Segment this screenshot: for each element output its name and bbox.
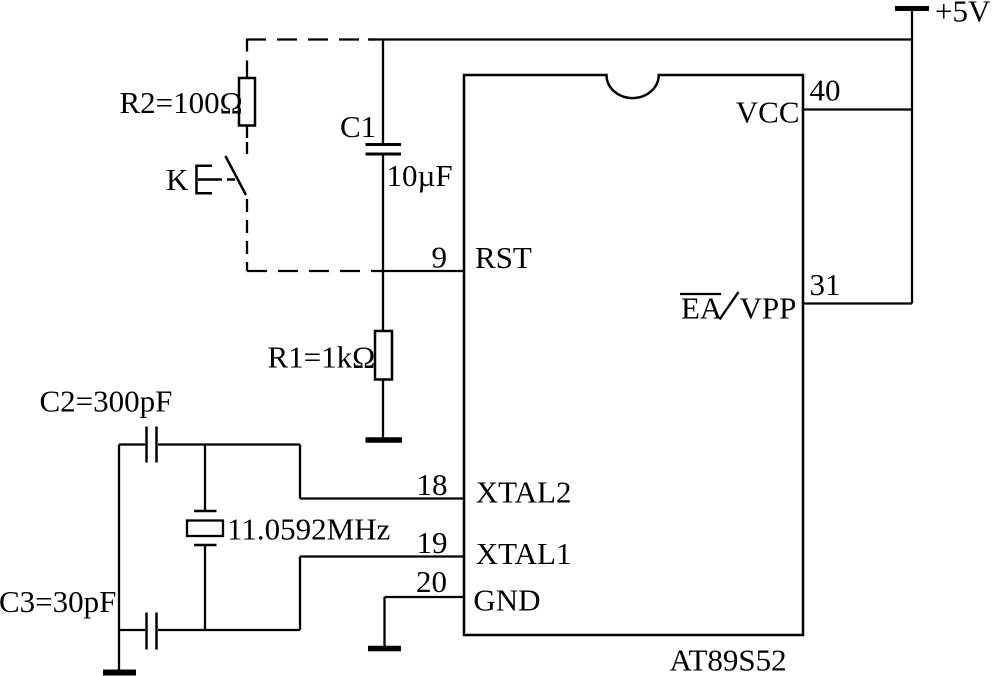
switch K actuator bracket <box>197 166 213 194</box>
capacitor C2 left plate <box>145 427 148 463</box>
svg-text:GND: GND <box>473 583 540 618</box>
wire R1 to ground <box>382 380 384 439</box>
wire RST node to R1 <box>382 271 384 331</box>
svg-text:R1=1kΩ: R1=1kΩ <box>268 340 376 375</box>
wire top horizontal <box>368 38 912 40</box>
wire dashed box left upper <box>246 40 248 72</box>
wire crystal top <box>204 445 206 512</box>
svg-text:C1: C1 <box>340 109 376 144</box>
svg-text:VPP: VPP <box>740 291 797 326</box>
svg-text:11.0592MHz: 11.0592MHz <box>227 512 390 547</box>
svg-text:RST: RST <box>475 240 532 275</box>
resistor R2 stub top <box>246 71 248 78</box>
svg-text:EA: EA <box>681 291 723 326</box>
resistor R2 stub bottom <box>246 126 248 139</box>
wire XTAL1 corner down <box>299 557 301 631</box>
capacitor C3 right plate <box>155 613 158 650</box>
svg-text:K: K <box>166 162 189 197</box>
wire left vertical C2 to ground <box>118 445 120 671</box>
svg-text:XTAL2: XTAL2 <box>476 475 572 510</box>
svg-text:31: 31 <box>810 267 841 302</box>
svg-text:+5V: +5V <box>935 0 991 29</box>
EA/VPP slash <box>720 292 739 320</box>
ground GND pin <box>368 646 401 652</box>
ground R1 <box>366 437 403 443</box>
wire C2 right to corner <box>158 443 300 445</box>
svg-text:C3=30pF: C3=30pF <box>0 584 116 619</box>
wire crystal bottom <box>204 546 206 630</box>
wire C3 left <box>119 629 145 631</box>
capacitor C2 right plate <box>155 427 158 463</box>
capacitor C3 left plate <box>145 613 148 650</box>
wire dashed box bottom <box>247 270 383 272</box>
svg-text:20: 20 <box>416 564 447 599</box>
svg-text:10µF: 10µF <box>387 158 453 193</box>
svg-text:XTAL1: XTAL1 <box>476 536 572 571</box>
capacitor C1 bottom plate <box>366 153 402 156</box>
power +5V bar <box>895 6 929 11</box>
svg-text:40: 40 <box>810 73 841 108</box>
crystal bottom electrode <box>194 544 217 547</box>
capacitor C1 top plate <box>366 143 402 146</box>
wire EA pin line <box>803 302 912 304</box>
ground bottom left <box>103 670 136 676</box>
switch K arm <box>225 156 246 195</box>
wire dashed switch to box bottom <box>246 199 248 271</box>
wire GND pin line <box>385 596 465 598</box>
svg-text:C2=300pF: C2=300pF <box>40 384 173 419</box>
IC U1 AT89S52 body <box>464 75 803 635</box>
svg-text:AT89S52: AT89S52 <box>670 643 787 676</box>
wire VCC pin line <box>803 108 912 110</box>
resistor R1 <box>375 331 392 380</box>
svg-text:19: 19 <box>417 525 448 560</box>
wire RST pin line <box>383 270 464 272</box>
wire dashed R2 to switch <box>246 142 248 160</box>
wire dashed box top <box>246 38 376 40</box>
svg-text:18: 18 <box>417 467 448 502</box>
crystal top electrode <box>194 510 217 513</box>
crystal Y1 body <box>187 521 223 537</box>
svg-text:R2=100Ω: R2=100Ω <box>120 85 243 120</box>
svg-text:9: 9 <box>432 240 448 275</box>
wire C2 left <box>119 443 145 445</box>
svg-text:VCC: VCC <box>736 95 800 130</box>
wire XTAL1 pin line <box>300 555 464 557</box>
wire corner down to XTAL2 line <box>299 445 301 499</box>
wire GND down <box>383 597 385 646</box>
wire XTAL2 pin line <box>300 497 464 499</box>
wire C1 top <box>382 40 384 145</box>
switch K actuator dashed link <box>198 178 238 181</box>
wire C1 bottom to RST node <box>382 156 384 272</box>
wire +5V vertical <box>911 11 913 304</box>
wire C3 right <box>158 629 300 631</box>
resistor R2 <box>239 78 255 126</box>
EA overline <box>680 293 721 295</box>
